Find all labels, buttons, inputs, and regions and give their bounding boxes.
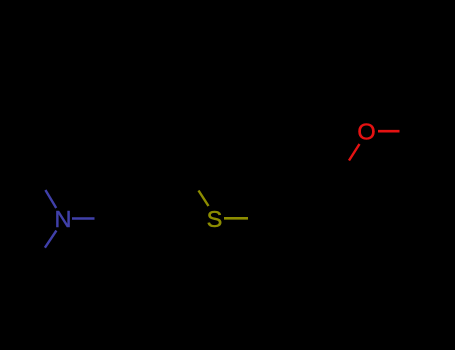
svg-text:O: O: [357, 118, 375, 144]
bond N1-CH3 lower (blue half-bond, down-left): [45, 231, 57, 248]
bond S1-Caryl (olive half-bond, horizontal right of S): [224, 217, 248, 220]
svg-text:S: S: [207, 206, 223, 232]
bond O1-CH3 methoxy (red half-bond, horizontal right of O): [378, 130, 400, 133]
bond C2-S1 (olive half-bond, diagonal from upper-left into S): [199, 191, 209, 207]
bond C1-C2 (chain CH2-CH2, black half): [126, 162, 182, 218]
bond N1-CH3 upper (blue half-bond, up-left): [45, 190, 56, 208]
wire: invisible carbon skeleton (black bonds on black background): [126, 162, 382, 305]
svg-text:N: N: [55, 206, 72, 232]
bond Caryl-O1 (red half-bond, diagonal down-left of O): [349, 144, 360, 161]
benzene ring (black, invisible): [281, 190, 382, 306]
bond N1-C1 (blue half-bond, horizontal right): [72, 217, 95, 220]
